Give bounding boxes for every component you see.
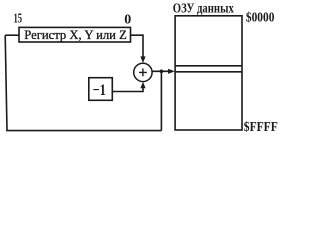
plus sign in adder: [139, 69, 147, 77]
arrowhead into RAM cell: [168, 69, 175, 74]
RAM cell bottom line: [175, 71, 242, 73]
svg-text:−1: −1: [93, 82, 106, 99]
wire -1 box to adder bottom: [112, 88, 143, 92]
wire adder output to RAM: [152, 70, 169, 72]
adder circle U1: [134, 63, 152, 81]
decrement box -1: [89, 78, 113, 101]
arrowhead into adder top: [140, 56, 145, 63]
wire junction down: [160, 71, 162, 130]
wire register right to adder top: [131, 35, 144, 57]
junction dot: [160, 70, 164, 74]
svg-text:ОЗУ данных: ОЗУ данных: [173, 0, 234, 15]
wire into register left: [5, 34, 19, 36]
register box: [19, 27, 131, 42]
RAM block: [175, 16, 242, 130]
svg-text:$0000: $0000: [246, 11, 275, 26]
svg-text:0: 0: [124, 12, 131, 27]
wire left feedback up: [5, 35, 7, 130]
RAM cell top line: [175, 65, 242, 67]
svg-text:15: 15: [14, 12, 23, 27]
svg-text:$FFFF: $FFFF: [244, 120, 278, 135]
svg-text:Регистр X, Y или Z: Регистр X, Y или Z: [24, 27, 127, 42]
arrowhead into adder bottom: [140, 82, 145, 89]
wire bottom feedback: [6, 130, 161, 132]
